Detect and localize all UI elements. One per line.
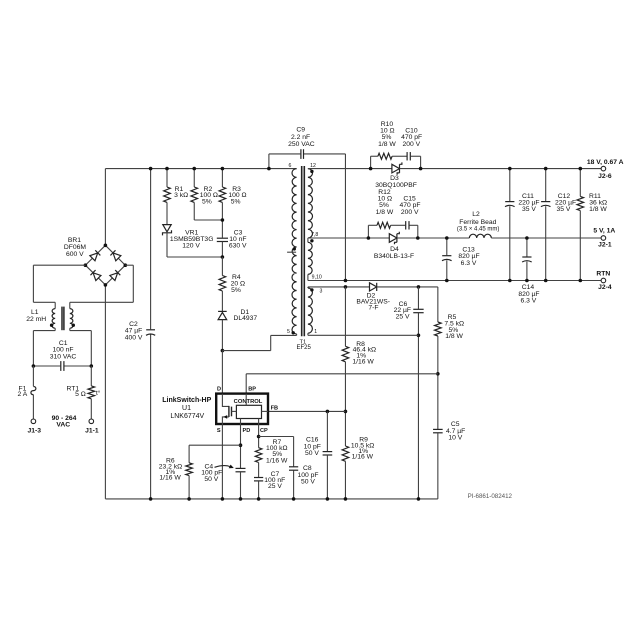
svg-text:200 V: 200 V: [401, 209, 419, 216]
svg-text:3 kΩ: 3 kΩ: [174, 192, 188, 199]
node CP/C8 junction: [257, 435, 261, 439]
capacitor C4: [236, 467, 246, 469]
wire: bottom primary rail: [105, 498, 437, 500]
fuse F1: [32, 366, 34, 386]
node C9 leg on RTN: [344, 279, 348, 283]
svg-text:35 V: 35 V: [557, 206, 571, 213]
capacitor C11: [509, 169, 511, 202]
capacitor C6: [417, 287, 419, 309]
resistor R10: [378, 153, 392, 159]
svg-text:2 A: 2 A: [18, 391, 28, 398]
L1 phase dot right: [72, 324, 75, 327]
wire: pin 1 line: [308, 334, 419, 336]
svg-text:CONTROL: CONTROL: [234, 399, 263, 405]
wire: pin 9,10 / RTN line: [308, 280, 601, 282]
wire: R2 to column: [194, 219, 222, 221]
diode D3: [392, 164, 400, 173]
svg-text:D: D: [217, 387, 221, 393]
node C1 left: [32, 364, 36, 368]
svg-text:5%: 5%: [231, 199, 241, 206]
svg-text:C16: C16: [306, 436, 319, 443]
svg-text:9,10: 9,10: [312, 274, 322, 280]
svg-text:7,8: 7,8: [311, 232, 318, 238]
node C6/pin1 junction: [417, 334, 421, 338]
svg-text:5 V, 1A: 5 V, 1A: [593, 227, 615, 234]
T1 phase dot pin 5: [292, 331, 295, 334]
capacitor C1: [33, 365, 60, 367]
svg-text:EF25: EF25: [297, 345, 312, 351]
svg-text:1/8 W: 1/8 W: [378, 141, 396, 148]
svg-text:Ferrite Bead: Ferrite Bead: [459, 219, 496, 226]
svg-text:J2-1: J2-1: [598, 241, 612, 248]
node R8/R9/FB junction: [344, 410, 348, 414]
svg-text:6.3 V: 6.3 V: [461, 260, 477, 267]
resistor R1: [166, 169, 168, 187]
resistor R7: [255, 448, 262, 463]
node S on bottom rail: [221, 497, 225, 501]
T1 primary mid tap stub: [287, 251, 296, 253]
node C8 bottom: [292, 497, 296, 501]
node C4 bottom: [239, 497, 243, 501]
bridge diode BR1d (- to R): [110, 270, 120, 280]
svg-text:1/16 W: 1/16 W: [352, 454, 374, 461]
resistor R4: [221, 257, 223, 276]
T1 primary mid tap dot: [293, 247, 296, 250]
wire: CP pin column: [258, 424, 260, 448]
svg-text:6.3 V: 6.3 V: [521, 297, 537, 304]
bridge diode BR1c (- to L): [90, 270, 100, 280]
node D4 bypass right: [416, 236, 420, 240]
svg-text:18 V, 0.67 A: 18 V, 0.67 A: [587, 159, 624, 166]
node VR1/C3 join: [221, 255, 225, 259]
wire: pin 7,8 line to D4: [308, 237, 389, 239]
svg-text:J1-1: J1-1: [85, 428, 99, 435]
wire: BP line: [246, 373, 438, 375]
svg-text:50 V: 50 V: [301, 479, 315, 486]
transformer T1 primary winding (pins 6-5): [292, 169, 297, 334]
svg-text:1/16 W: 1/16 W: [266, 457, 288, 464]
svg-text:250 VAC: 250 VAC: [288, 141, 315, 148]
wire: drain node down to U1 D pin: [221, 351, 223, 394]
capacitor C16: [326, 411, 328, 451]
svg-text:10 V: 10 V: [448, 434, 462, 441]
node R3 top: [221, 167, 225, 171]
wire: top rail from bridge+ to transformer pin 6: [105, 168, 296, 170]
node C2 top on rail: [149, 167, 153, 171]
svg-text:C8: C8: [303, 465, 312, 472]
wire: C9 right leg down to pin 9,10 line: [344, 154, 346, 281]
svg-text:50 V: 50 V: [305, 450, 319, 457]
node D3 bypass left: [369, 167, 373, 171]
svg-text:2.2 nF: 2.2 nF: [291, 134, 310, 141]
svg-text:U1: U1: [182, 405, 191, 412]
svg-text:PI-6861-082412: PI-6861-082412: [468, 493, 513, 500]
node C6 column on bottom rail: [417, 497, 421, 501]
bridge rectifier BR1 diamond: [85, 245, 125, 285]
node bridge right vertex: [124, 263, 128, 267]
transistor Q internal MOSFET: [222, 394, 229, 407]
node PD/R6 junction: [239, 443, 243, 447]
L1 phase dot left: [50, 324, 53, 327]
wire: PD pin column: [240, 424, 242, 468]
terminal J1-3: [31, 419, 36, 424]
svg-text:FB: FB: [271, 406, 278, 412]
resistor R5: [437, 287, 439, 322]
node R8 top on pin3 line: [344, 285, 348, 289]
T1 bias winding pins 3-1: [307, 287, 309, 288]
wire: pin 12 line to D3: [308, 168, 392, 170]
svg-text:35 V: 35 V: [522, 206, 536, 213]
node R1 top: [165, 167, 169, 171]
node D4 bypass left: [367, 236, 371, 240]
U1 pins PD CP inside: [240, 419, 242, 425]
wire: L1 to C1 node left: [33, 330, 55, 332]
capacitor C12: [545, 169, 547, 202]
resistor R6: [188, 445, 190, 463]
node R2 top: [192, 167, 196, 171]
node bridge + vertex: [104, 244, 108, 248]
inductor L1 right winding: [69, 302, 71, 308]
resistor R9: [342, 446, 349, 461]
svg-text:VAC: VAC: [56, 421, 70, 428]
resistor R12: [377, 222, 391, 228]
node C16 bottom: [326, 497, 330, 501]
capacitor C14: [526, 238, 528, 257]
svg-text:1/16 W: 1/16 W: [352, 358, 374, 365]
svg-text:CP: CP: [260, 428, 268, 434]
node C16 top on FB line: [326, 410, 330, 414]
node C6 top: [417, 285, 421, 289]
U1 inner control box: [236, 405, 261, 418]
svg-text:t°: t°: [96, 389, 101, 397]
capacitor C3: [217, 237, 228, 239]
svg-text:RTN: RTN: [596, 271, 610, 278]
svg-text:1/8 W: 1/8 W: [445, 333, 463, 340]
bridge diode BR1a (L to +): [90, 250, 100, 260]
terminal J2-6: [601, 166, 606, 171]
node bridge left vertex: [84, 263, 88, 267]
wire: bridge left vertex to left AC column: [33, 264, 85, 266]
svg-text:PD: PD: [243, 428, 251, 434]
svg-text:25 V: 25 V: [268, 483, 282, 490]
capacitor C7: [258, 463, 260, 478]
svg-text:(3.5 × 4.45 mm): (3.5 × 4.45 mm): [457, 227, 500, 233]
node R5/BP junction: [436, 372, 440, 376]
svg-text:BR1: BR1: [68, 237, 81, 244]
svg-text:400 V: 400 V: [125, 334, 143, 341]
R10/C10 snubber loop: [370, 156, 372, 168]
terminal J1-1: [89, 419, 94, 424]
svg-text:25 V: 25 V: [396, 313, 410, 320]
capacitor C9: [268, 154, 270, 169]
svg-text:BP: BP: [248, 387, 256, 393]
diode D1: [218, 312, 227, 319]
resistor R8: [344, 287, 346, 346]
node D1/pin5/drain junction: [221, 349, 225, 353]
svg-text:1/8 W: 1/8 W: [376, 209, 394, 216]
node bridge - vertex: [104, 283, 108, 287]
svg-text:600 V: 600 V: [66, 251, 84, 258]
node R6 bottom: [187, 497, 191, 501]
diode D4: [389, 234, 397, 243]
wire: PD jog to R6: [189, 444, 240, 446]
node C7 bottom: [257, 497, 261, 501]
svg-text:5 Ω: 5 Ω: [75, 391, 86, 398]
capacitor C8: [293, 437, 295, 467]
wire: bridge right vertex to right AC column: [125, 264, 133, 266]
L1 core lines: [61, 307, 63, 331]
node R9 bottom: [344, 497, 348, 501]
T1 core: [301, 166, 303, 336]
svg-text:D4: D4: [390, 246, 399, 253]
svg-text:1/8 W: 1/8 W: [589, 206, 607, 213]
T1 phase dot pin 3: [310, 288, 313, 291]
zener VR1: [163, 225, 171, 232]
wire: bridge- down to bottom rail: [104, 285, 106, 499]
capacitor C13: [446, 238, 448, 255]
arrow from C4 label to C4: [215, 466, 231, 468]
node C1 right: [90, 364, 94, 368]
svg-text:6: 6: [289, 163, 292, 169]
thermistor RT1: [90, 366, 92, 386]
resistor R3: [221, 169, 223, 187]
capacitor C5: [433, 428, 443, 430]
svg-text:5%: 5%: [202, 199, 212, 206]
capacitor C10: [406, 152, 408, 160]
svg-text:22 mH: 22 mH: [26, 316, 46, 323]
op-amp U1 LinkSwitch-HP IC box: [216, 394, 268, 424]
svg-text:LinkSwitch-HP: LinkSwitch-HP: [162, 397, 211, 404]
inductor L1 left winding: [54, 302, 56, 308]
node C9 left leg on rail: [267, 167, 271, 171]
svg-text:J2-4: J2-4: [598, 284, 612, 291]
wire: D4 to L2: [397, 237, 469, 239]
T1 phase dot pin 7,8 winding: [310, 239, 313, 242]
terminal J2-1: [601, 236, 606, 241]
wire: bridge+ riser: [104, 169, 106, 246]
U1 pin BP inside: [245, 394, 247, 406]
svg-text:200 V: 200 V: [402, 141, 420, 148]
wire: pin 3 line to D2: [308, 286, 370, 288]
svg-text:5%: 5%: [231, 287, 241, 294]
wire: pin 5 to drain node: [271, 334, 297, 336]
svg-text:B340LB-13-F: B340LB-13-F: [374, 253, 414, 260]
svg-text:1/16 W: 1/16 W: [159, 475, 181, 482]
svg-text:310 VAC: 310 VAC: [50, 353, 77, 360]
svg-text:120 V: 120 V: [182, 242, 200, 249]
node C2 bottom on rail: [149, 497, 153, 501]
node R2/R3 join: [221, 218, 225, 222]
wire: D3 to 18V terminal: [400, 168, 602, 170]
diode D2: [370, 283, 377, 291]
T1 secondary winding pins 7,8-9,10: [307, 238, 309, 242]
svg-text:DL4937: DL4937: [233, 315, 257, 322]
resistor R11: [579, 169, 581, 197]
wire: L2 to 5V terminal: [491, 237, 601, 239]
wire: L1 to C1 node right: [70, 330, 92, 332]
wire: CP jog to C8: [259, 436, 294, 438]
T1 secondary winding pins 12-7,8: [308, 169, 313, 238]
svg-text:5: 5: [287, 329, 290, 335]
R12/C15 snubber loop: [367, 225, 369, 238]
svg-text:30BQ100PBF: 30BQ100PBF: [375, 182, 417, 189]
node D3 bypass right: [419, 167, 423, 171]
wire: VR1 to column: [167, 256, 222, 258]
capacitor C15: [405, 221, 407, 229]
svg-text:J2-6: J2-6: [598, 173, 612, 180]
U1 pin FB inside: [262, 410, 269, 412]
svg-text:C9: C9: [296, 127, 305, 134]
terminal J2-4: [601, 278, 606, 283]
resistor R2: [193, 169, 195, 187]
wire: FB line: [268, 410, 345, 412]
inductor L2 ferrite bead: [469, 234, 491, 238]
svg-text:50 V: 50 V: [204, 476, 218, 483]
svg-text:L2: L2: [472, 211, 480, 218]
svg-text:LNK6774V: LNK6774V: [170, 413, 204, 420]
svg-text:1: 1: [314, 329, 317, 335]
bridge diode BR1b (R to +): [110, 250, 120, 260]
svg-text:630 V: 630 V: [229, 242, 247, 249]
svg-text:DF06M: DF06M: [64, 244, 87, 251]
wire: S pin to bottom rail: [221, 424, 223, 499]
wire: D2 cathode to R5 column: [377, 286, 438, 288]
capacitor C2: [150, 169, 152, 330]
svg-text:7-F: 7-F: [368, 304, 378, 311]
T1 phase dot pin 12: [310, 170, 313, 173]
svg-text:S: S: [217, 428, 221, 434]
svg-text:J1-3: J1-3: [27, 428, 41, 435]
svg-text:3: 3: [319, 288, 322, 294]
